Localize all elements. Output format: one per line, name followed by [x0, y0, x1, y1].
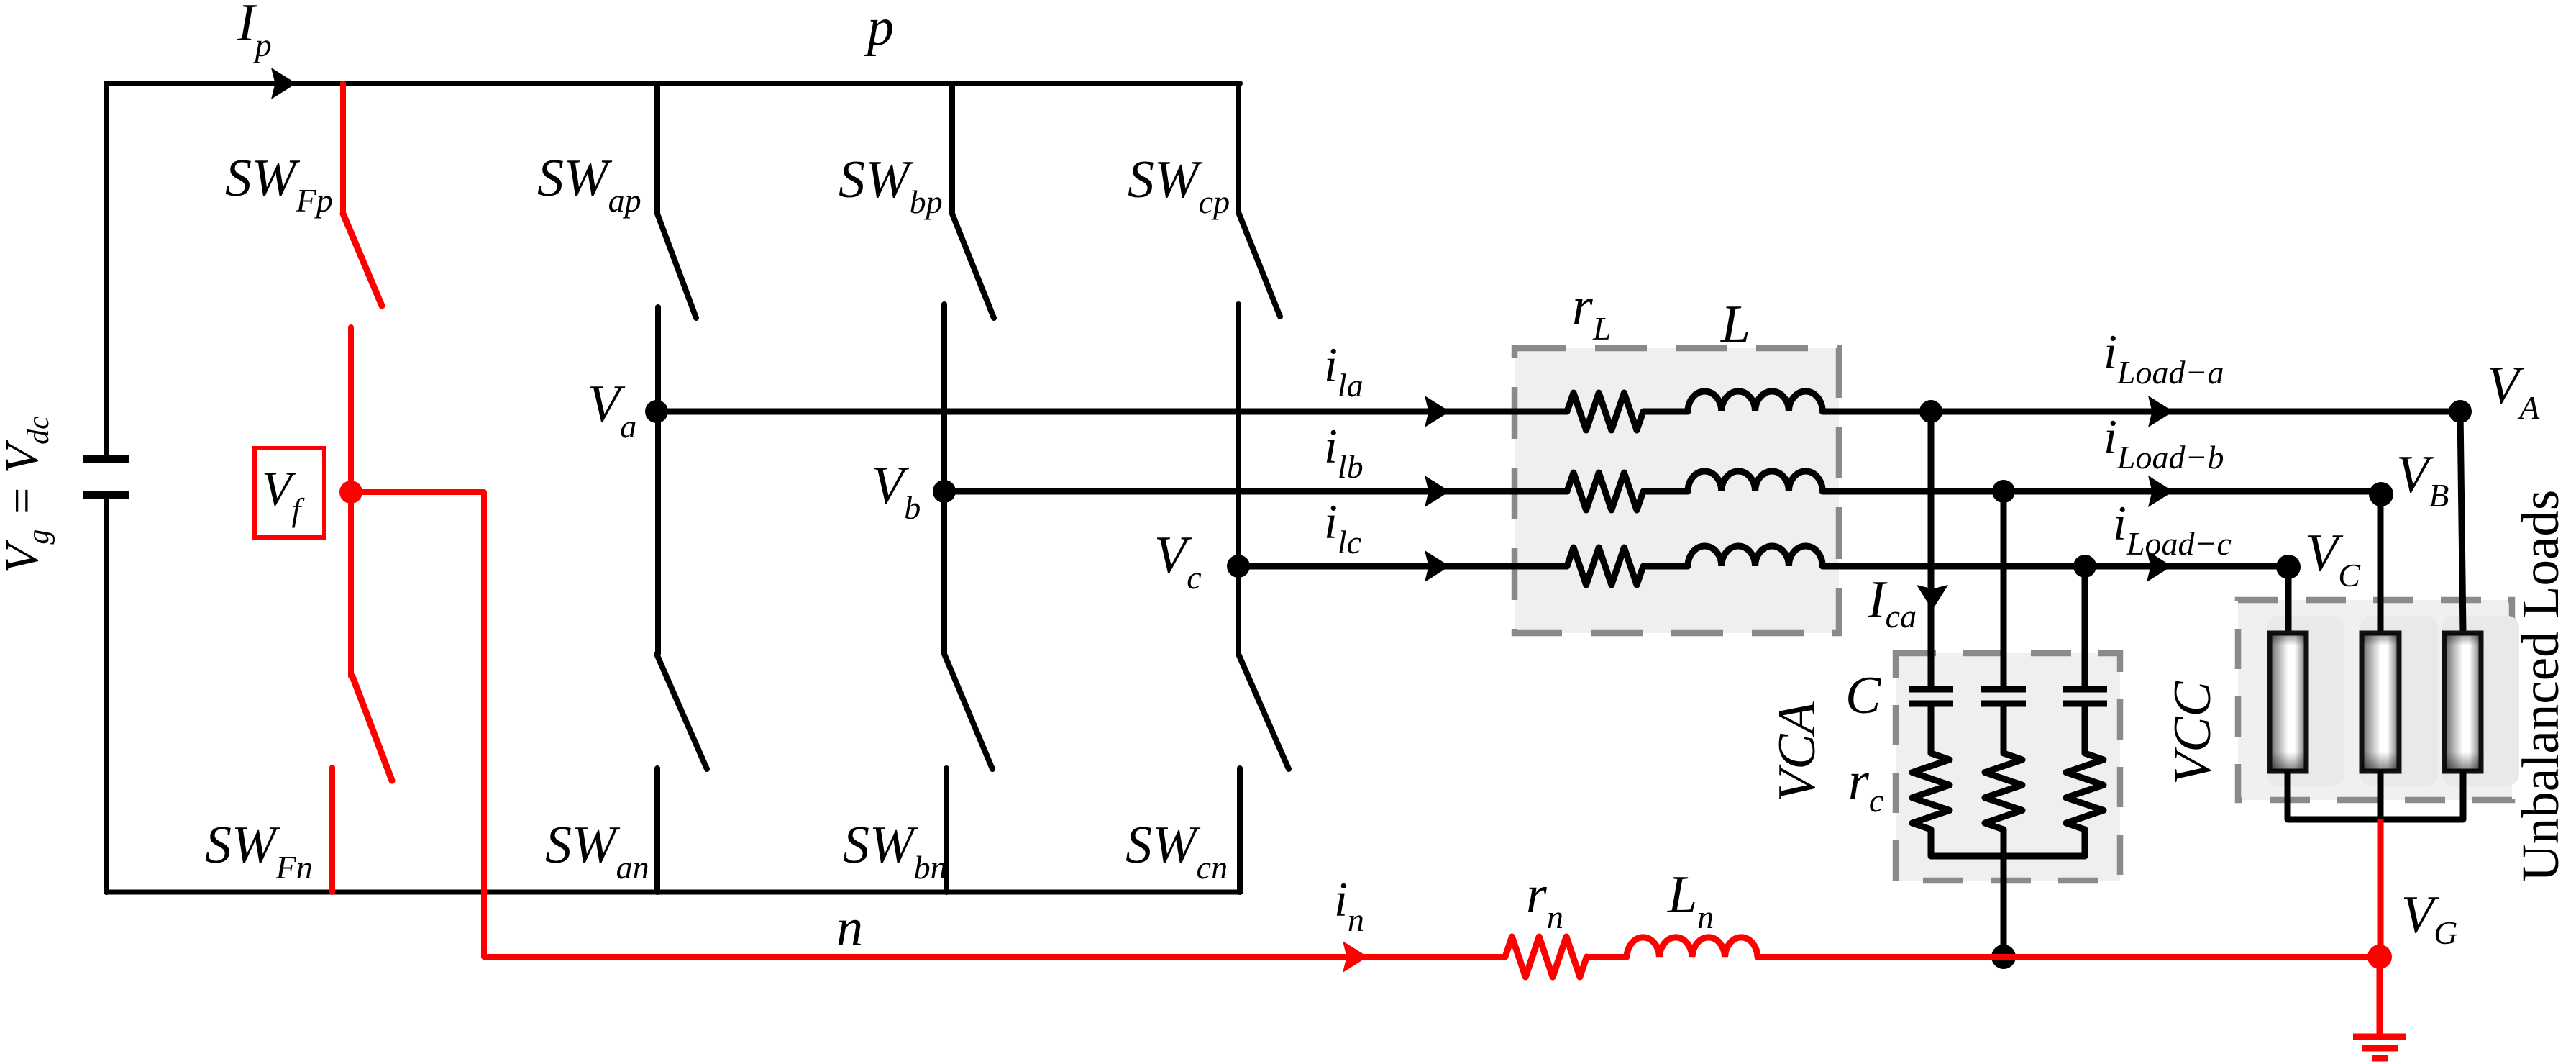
- switch SW_an lower contact: [654, 768, 660, 892]
- wire: neutral from Ln to VG (red): [1758, 954, 2380, 960]
- wire: bottom rail: [106, 890, 1241, 895]
- load bar 1: [2270, 633, 2306, 771]
- switch SW_Fn blade (red): [352, 676, 392, 781]
- wire: branch a plate to rc: [1928, 706, 1935, 753]
- resistor rn (red): [1505, 937, 1586, 977]
- arrow i_lc: [1425, 550, 1450, 582]
- node VB junction dot: [2369, 482, 2393, 506]
- svg-text:SWcn: SWcn: [1125, 816, 1228, 886]
- capacitor Vdc top plate: [83, 455, 129, 463]
- svg-text:iLoad−b: iLoad−b: [2104, 409, 2224, 476]
- svg-text:SWbn: SWbn: [843, 816, 947, 886]
- switch SW_ap upper terminal: [654, 83, 660, 214]
- svg-text:VB: VB: [2396, 445, 2449, 514]
- switch SW_bn blade: [944, 654, 992, 769]
- svg-text:Ica: Ica: [1867, 570, 1917, 635]
- svg-text:Vc: Vc: [1154, 526, 1202, 596]
- wire: left vertical from rail to capacitor: [104, 83, 109, 458]
- wire: neutral between rn and Ln (red): [1586, 954, 1627, 960]
- switch SW_ap blade: [657, 214, 696, 318]
- wire: top rail p: [106, 81, 1240, 86]
- svg-text:SWbp: SWbp: [839, 150, 943, 220]
- wire: branch c rc to bus: [2082, 829, 2088, 856]
- node phase c / cap branch junction dot: [2073, 555, 2096, 578]
- node Vb junction dot: [933, 480, 956, 503]
- wire: left vertical from capacitor to bottom rail: [104, 496, 109, 892]
- wire: leg b mid vertical: [941, 304, 947, 654]
- label VCC (rotated): [2163, 680, 2222, 785]
- wire: capacitor bank bottom bus: [1931, 853, 2085, 860]
- wire: phase a to filter: [657, 409, 1567, 415]
- svg-text:rn: rn: [1526, 865, 1563, 935]
- inductor L phase a: [1688, 391, 1822, 411]
- wire: neutral line n (red): [484, 954, 1505, 960]
- wire: leg c mid vertical: [1236, 304, 1241, 654]
- box around Vf label (red): [255, 448, 324, 537]
- svg-text:iLoad−a: iLoad−a: [2104, 324, 2224, 391]
- svg-text:rc: rc: [1848, 752, 1883, 819]
- arrow i_la: [1425, 396, 1450, 427]
- svg-text:ilc: ilc: [1324, 494, 1361, 560]
- resistor rL phase a: [1567, 393, 1643, 430]
- svg-text:ila: ila: [1324, 337, 1364, 404]
- svg-text:SWcp: SWcp: [1128, 150, 1230, 220]
- wire: VA to load bar 3: [2460, 411, 2463, 633]
- arrow i_lb: [1425, 476, 1450, 507]
- switch SW_an blade: [657, 654, 707, 769]
- capacitor C branch b plates: [1981, 689, 2026, 704]
- svg-text:n: n: [836, 899, 863, 958]
- capacitor Vdc bottom plate: [83, 491, 129, 499]
- svg-text:ilb: ilb: [1324, 419, 1364, 485]
- resistor rL phase c: [1567, 547, 1643, 585]
- wire: load bus to VG (red): [2378, 819, 2384, 957]
- resistor rL phase b: [1567, 473, 1643, 510]
- wire: phase b to filter: [944, 488, 1567, 495]
- svg-text:VCA: VCA: [1768, 701, 1827, 802]
- wire: load bar 2 bottom lead: [2378, 771, 2384, 819]
- arrow I_ca (down): [1917, 585, 1948, 610]
- arrow Ip on top rail: [271, 68, 296, 99]
- svg-text:Ip: Ip: [237, 0, 272, 63]
- svg-text:SWap: SWap: [537, 149, 641, 219]
- switch SW_cn blade: [1238, 654, 1289, 769]
- svg-text:Vg = Vdc: Vg = Vdc: [0, 416, 55, 573]
- resistor rc branch b: [1985, 753, 2022, 829]
- wire: phase c from L to VC: [1822, 563, 2288, 570]
- svg-text:Unbalanced Loads: Unbalanced Loads: [2511, 490, 2570, 882]
- svg-text:VG: VG: [2401, 886, 2457, 951]
- node Va junction dot: [645, 400, 668, 423]
- wire: branch b rc to neutral: [2001, 829, 2007, 957]
- node Vc junction dot: [1227, 555, 1250, 578]
- svg-text:iLoad−c: iLoad−c: [2113, 496, 2232, 562]
- wire: phase c between rL and L: [1643, 563, 1688, 570]
- wire: branch b plate to rc: [2001, 706, 2007, 753]
- node phase b / cap branch junction dot: [1992, 480, 2015, 503]
- resistor rc branch c: [2066, 753, 2104, 829]
- wire: leg a mid vertical: [655, 307, 661, 654]
- svg-text:VCC: VCC: [2163, 680, 2222, 785]
- capacitor C branch c plates: [2063, 689, 2107, 704]
- label Unbalanced Loads (rotated): [2511, 490, 2570, 882]
- svg-text:VA: VA: [2487, 356, 2540, 426]
- wire: phase a from L to VA: [1822, 409, 2460, 415]
- svg-text:in: in: [1334, 872, 1364, 938]
- inductor L phase c: [1688, 546, 1822, 566]
- wire: VB to load bar 2: [2378, 494, 2384, 633]
- svg-text:Va: Va: [588, 375, 636, 445]
- wire: phase b between rL and L: [1643, 488, 1688, 495]
- switch SW_bn lower contact: [944, 768, 949, 892]
- wire: phase a between rL and L: [1643, 409, 1688, 415]
- wire: load bottom bus: [2288, 817, 2463, 823]
- switch SW_Fn lower contact (red): [329, 768, 335, 892]
- svg-text:p: p: [864, 0, 894, 57]
- wire: phase b from L to VB: [1822, 488, 2381, 495]
- svg-text:Vb: Vb: [872, 456, 921, 526]
- wire: cap branch a lead: [1928, 411, 1935, 688]
- wire: SW_Fp lower contact down to node Vf (red): [348, 327, 354, 676]
- svg-text:VC: VC: [2306, 524, 2361, 594]
- capacitor C branch a plates: [1909, 689, 1953, 704]
- wire: phase c to filter: [1238, 563, 1567, 570]
- label Vg = Vdc (rotated, left): [0, 416, 55, 573]
- node VC junction dot: [2276, 555, 2301, 579]
- load box VCC: [2238, 600, 2519, 800]
- inductor Ln (red): [1627, 937, 1758, 957]
- wire: load bar 1 bottom lead: [2285, 771, 2291, 819]
- svg-text:C: C: [1845, 666, 1882, 725]
- wire: load bar 3 bottom lead: [2460, 771, 2467, 819]
- arrow i_Load-a: [2148, 396, 2173, 427]
- switch SW_bp blade: [952, 214, 994, 318]
- ground (red): [2353, 957, 2406, 1058]
- switch SW_cp upper terminal: [1236, 83, 1241, 212]
- wire: cap branch b lead: [2001, 491, 2007, 688]
- resistor rc branch a: [1912, 753, 1950, 829]
- wire: red link from Vf node to neutral: [351, 492, 484, 957]
- svg-text:SWan: SWan: [545, 816, 649, 886]
- svg-text:rL: rL: [1572, 277, 1611, 347]
- wire: cap branch c lead: [2082, 566, 2088, 688]
- capacitor bank box VCA: [1896, 653, 2120, 881]
- node VA junction dot: [2449, 400, 2472, 423]
- svg-text:Ln: Ln: [1667, 865, 1714, 935]
- filter box rL/L: [1515, 348, 1839, 633]
- arrow i_Load-c: [2147, 550, 2172, 582]
- svg-text:SWFp: SWFp: [225, 149, 333, 219]
- switch SW_cp blade: [1238, 212, 1280, 317]
- switch SW_cn lower contact: [1237, 768, 1243, 892]
- svg-text:L: L: [1720, 295, 1750, 354]
- switch SW_Fp blade (red): [343, 214, 382, 306]
- wire: branch c plate to rc: [2082, 706, 2088, 753]
- wire: branch a rc to bus: [1928, 829, 1935, 856]
- wire: VC to load bar 1: [2285, 567, 2292, 633]
- switch SW_Fp upper terminal (red): [340, 83, 346, 214]
- node VG junction dot (red): [2367, 945, 2392, 969]
- svg-text:SWFn: SWFn: [205, 816, 313, 886]
- label VCA (rotated): [1768, 701, 1827, 802]
- load bar 2: [2362, 633, 2399, 771]
- node Vf junction dot (red): [339, 481, 362, 504]
- load bar 3: [2444, 633, 2481, 771]
- inductor L phase b: [1688, 471, 1822, 491]
- node neutral/cap bank junction dot: [1991, 945, 2016, 969]
- arrow i_Load-b: [2148, 476, 2173, 507]
- arrow i_n (red): [1343, 941, 1368, 973]
- switch SW_bp upper terminal: [949, 83, 955, 214]
- node phase a / cap branch junction dot: [1919, 400, 1942, 423]
